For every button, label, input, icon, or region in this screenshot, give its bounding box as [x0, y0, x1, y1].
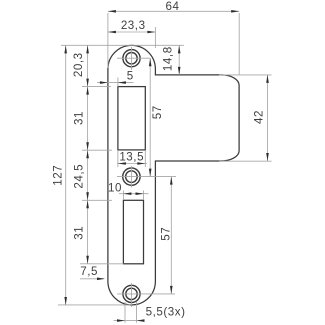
svg-text:5: 5 — [127, 69, 134, 82]
svg-text:20,3: 20,3 — [72, 52, 85, 77]
dimension line 5,5 — [114, 320, 143, 322]
dimension line 64 — [108, 10, 239, 12]
arrow 31 lower top — [86, 200, 89, 208]
svg-text:31: 31 — [72, 226, 85, 240]
svg-text:57: 57 — [159, 227, 172, 241]
centerline bottom hole vertical — [131, 283, 133, 307]
arrow 42 bottom — [266, 153, 269, 161]
dimension line 14,8 — [178, 45, 180, 75]
arrow 57 lower bottom — [170, 286, 173, 294]
extension line lower cutout left top — [122, 191, 124, 201]
dimension line 13,5 — [117, 163, 147, 165]
top screw hole outer circle — [123, 50, 140, 67]
svg-text:7,5: 7,5 — [80, 265, 98, 278]
arrow 31 upper top — [86, 87, 89, 95]
middle screw hole outer circle — [123, 168, 140, 185]
svg-text:23,3: 23,3 — [121, 19, 146, 32]
svg-text:13,5: 13,5 — [119, 150, 144, 163]
svg-text:57: 57 — [151, 105, 164, 119]
extension line lower cutout right top — [143, 191, 145, 201]
arrow 5,5 right outside — [137, 319, 145, 322]
svg-text:24,5: 24,5 — [72, 164, 85, 189]
extension line upper cutout left bottom — [117, 151, 119, 167]
arrow 127 bottom — [64, 297, 67, 305]
arrow 64 right — [231, 10, 239, 13]
arrow 20,3 bottom — [86, 79, 89, 87]
extension line bottom hole right — [136, 302, 138, 323]
middle screw hole inner circle — [126, 171, 138, 183]
upper latch cutout rectangle — [118, 87, 145, 150]
svg-text:31: 31 — [72, 111, 85, 125]
dimension line 57 upper — [149, 58, 151, 176]
extension line plate right edge top — [154, 27, 156, 48]
extension line tab top edge — [219, 74, 272, 76]
svg-text:42: 42 — [253, 110, 266, 124]
arrow 42 top — [266, 75, 269, 83]
dimension line 5 — [97, 82, 134, 84]
arrow 20,3 top — [86, 45, 89, 53]
svg-text:10: 10 — [108, 181, 122, 194]
dimension line 127 — [65, 45, 67, 305]
bottom screw hole outer circle — [123, 285, 140, 302]
arrow 13,5 right — [137, 162, 145, 165]
centerline middle hole horizontal — [117, 176, 176, 178]
arrow 5 left outside — [100, 81, 108, 84]
arrow 14,8 bottom — [178, 67, 181, 75]
arrow 13,5 left — [118, 162, 126, 165]
extension line lower cutout top — [82, 199, 112, 201]
arrow 64 left — [108, 10, 116, 13]
strike plate outline with right lip tab — [108, 45, 239, 305]
dimension line 10 — [119, 193, 149, 195]
centerline middle hole vertical — [130, 166, 132, 188]
extension line upper cutout left top — [117, 78, 119, 87]
arrow 7,5 leader — [97, 278, 105, 281]
extension line upper cutout bottom — [82, 149, 112, 151]
lower latch cutout rectangle — [123, 200, 143, 263]
extension line lower cutout bottom — [80, 263, 123, 265]
dimension line 57 lower — [170, 177, 172, 294]
arrow 57 upper top — [149, 58, 152, 66]
arrow 24,5 top — [86, 150, 89, 158]
svg-text:127: 127 — [51, 165, 64, 186]
arrow 57 upper bottom — [149, 169, 152, 177]
centerline top hole horizontal — [117, 57, 150, 59]
dimension line 42 — [267, 75, 269, 161]
extension line plate left edge top — [107, 13, 109, 68]
arrow 5,5 left outside — [117, 319, 125, 322]
arrow 31 upper bottom — [86, 142, 89, 150]
svg-text:14,8: 14,8 — [162, 46, 175, 71]
arrow 57 lower top — [170, 177, 173, 185]
bottom screw hole inner circle — [126, 288, 137, 299]
extension line plate bottom — [58, 304, 131, 306]
arrow 23,3 right — [147, 31, 155, 34]
arrow 23,3 left — [108, 31, 116, 34]
extension line tab right edge — [238, 13, 240, 75]
arrow 127 top — [64, 45, 67, 53]
extension line tab bottom edge — [219, 160, 272, 162]
arrow 24,5 bottom — [86, 192, 89, 200]
top screw hole inner circle — [126, 53, 137, 64]
centerline bottom hole horizontal — [117, 293, 175, 295]
extension line upper cutout top — [82, 86, 111, 88]
arrow 10 right — [136, 192, 144, 195]
arrow 14,8 top — [178, 45, 181, 53]
dimension line 7,5 — [80, 278, 104, 280]
centerline top hole vertical — [131, 47, 133, 70]
dimension line 23,3 — [108, 31, 155, 33]
arrow 5 right outside — [118, 81, 126, 84]
extension line bottom hole left — [124, 302, 126, 323]
svg-text:64: 64 — [166, 0, 180, 13]
extension line upper cutout right bottom — [144, 151, 146, 167]
arrow 31 lower bottom — [86, 256, 89, 264]
arrow 10 left — [123, 192, 131, 195]
extension line plate top edge — [61, 44, 184, 46]
svg-text:5,5(3x): 5,5(3x) — [146, 306, 186, 319]
chain dimension line 20,3/31/24,5/31 — [87, 45, 89, 263]
